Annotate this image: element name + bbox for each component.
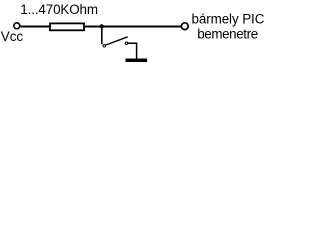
- switch S1 open contact: [125, 42, 128, 45]
- node PIC input terminal: [181, 23, 188, 30]
- node junction dot: [100, 24, 104, 28]
- switch S1 lever: [106, 37, 128, 45]
- svg-text:bármely PIC: bármely PIC: [192, 12, 265, 27]
- ground: [126, 59, 148, 63]
- svg-text:Vcc: Vcc: [1, 29, 24, 44]
- svg-text:bemenetre: bemenetre: [197, 26, 258, 41]
- svg-text:1...470KOhm: 1...470KOhm: [20, 2, 98, 17]
- node Vcc terminal: [14, 23, 20, 29]
- wire switch contact to ground: [128, 43, 137, 58]
- resistor R1: [50, 23, 84, 30]
- wire resistor to PIC terminal: [85, 26, 182, 28]
- switch S1 pivot contact: [103, 44, 106, 47]
- wire Vcc to resistor: [21, 26, 51, 28]
- wire junction down to switch: [101, 27, 103, 45]
